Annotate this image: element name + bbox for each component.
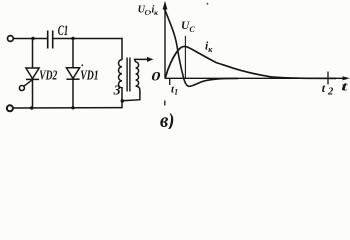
svg-text:VD2: VD2	[39, 69, 57, 84]
svg-text:C1: C1	[58, 23, 69, 39]
node (coil common junction)	[121, 99, 125, 103]
terminal (VD2 gate)	[19, 86, 24, 91]
curve i_K (coil current)	[165, 46, 336, 78]
node (top junction of VD2 branch)	[31, 37, 34, 40]
speck (scan noise)	[207, 3, 209, 5]
tick t1	[169, 78, 171, 85]
graph: horizontal axis (t)	[165, 77, 345, 79]
svg-text:t: t	[341, 79, 348, 94]
node (top junction of VD1 branch)	[71, 37, 74, 40]
transformer 3 : primary winding	[118, 60, 122, 101]
wire (bottom rail riser to coil common)	[121, 101, 123, 109]
arrow (secondary output)	[147, 57, 153, 62]
wire (bottom rail)	[13, 107, 122, 109]
thyristor VD2	[24, 39, 39, 109]
wire (right drop to transformer primary)	[121, 38, 123, 60]
arrow (horizontal axis head)	[343, 76, 350, 80]
terminal (input, bottom-left)	[7, 105, 13, 111]
graph: vertical axis	[164, 4, 166, 78]
svg-text:VD1: VD1	[80, 69, 99, 84]
svg-text:3: 3	[113, 84, 121, 99]
arrow (vertical axis head)	[163, 1, 168, 10]
svg-text:0: 0	[151, 68, 161, 83]
node (bottom junction of VD2 branch)	[30, 106, 33, 109]
leader line (U_C label drop line)	[184, 36, 186, 78]
transformer 3 : core	[127, 58, 130, 92]
stray mark above caption	[164, 101, 166, 106]
terminal (input, top-left)	[7, 36, 13, 42]
node (bottom junction of VD1 branch)	[71, 106, 74, 109]
speck above VD1	[81, 64, 83, 66]
transformer 3 : secondary winding	[123, 62, 140, 101]
curve U_C (capacitor voltage discharge)	[165, 9, 238, 86]
wire (top rail left segment)	[13, 38, 47, 40]
wire (top rail right segment)	[53, 38, 123, 40]
capacitor C1	[48, 31, 53, 49]
diode VD1	[66, 39, 79, 109]
svg-text:2: 2	[327, 86, 334, 97]
wire (secondary top lead to output)	[135, 59, 149, 62]
svg-text:в): в)	[160, 110, 175, 129]
tick t2	[327, 72, 329, 85]
